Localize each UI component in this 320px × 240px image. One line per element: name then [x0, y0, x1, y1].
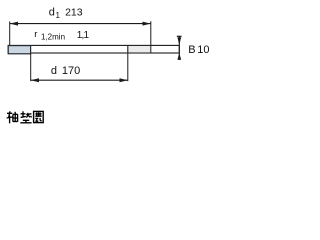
washer bore edge line (right, node d right): [127, 45, 129, 53]
svg-text:B: B: [188, 44, 195, 56]
washer left cross-section (blue stippled): [8, 46, 30, 54]
caption 轴垫圈 (shaft washer) drawn as vector glyphs: [7, 111, 44, 123]
dimension d1: extension line left: [9, 21, 11, 45]
dimension d1: dimension line: [10, 23, 151, 25]
washer body outline (side view bar): [8, 45, 179, 53]
svg-text:10: 10: [197, 44, 209, 56]
dimension d1: left arrowhead: [10, 22, 18, 26]
washer right section fill (light gray): [128, 46, 150, 53]
svg-text:1,1: 1,1: [77, 30, 90, 41]
dimension d1: extension line right (continues through washer): [150, 21, 152, 53]
dimension B: top arrowhead (points down): [177, 37, 181, 45]
label B 10: [188, 44, 209, 56]
svg-text:d: d: [51, 65, 57, 77]
dimension d: dimension line: [31, 79, 128, 81]
dimension B: vertical line through washer right edge: [178, 36, 180, 60]
svg-text:d: d: [49, 6, 55, 18]
svg-text:1: 1: [56, 11, 61, 20]
svg-text:213: 213: [65, 6, 83, 18]
dimension d: left arrowhead: [31, 78, 39, 82]
glyph 垫: [20, 111, 31, 123]
dimension d: extension line right: [127, 54, 129, 82]
svg-text:170: 170: [62, 65, 80, 77]
glyph 圈: [34, 111, 44, 122]
glyph 轴: [7, 111, 18, 123]
dimension B: bottom arrowhead (points up): [177, 53, 181, 60]
label d 170: [51, 65, 80, 77]
dimension d1: right arrowhead: [143, 22, 151, 26]
dimension B: top tail tick: [177, 35, 182, 37]
dimension d: extension line left: [30, 54, 32, 82]
svg-text:1,2min: 1,2min: [41, 33, 65, 42]
dimension d: right arrowhead: [120, 78, 128, 82]
label d1 213: [49, 6, 83, 20]
svg-text:r: r: [34, 29, 37, 40]
label r1,2min 1,1: [34, 29, 89, 42]
